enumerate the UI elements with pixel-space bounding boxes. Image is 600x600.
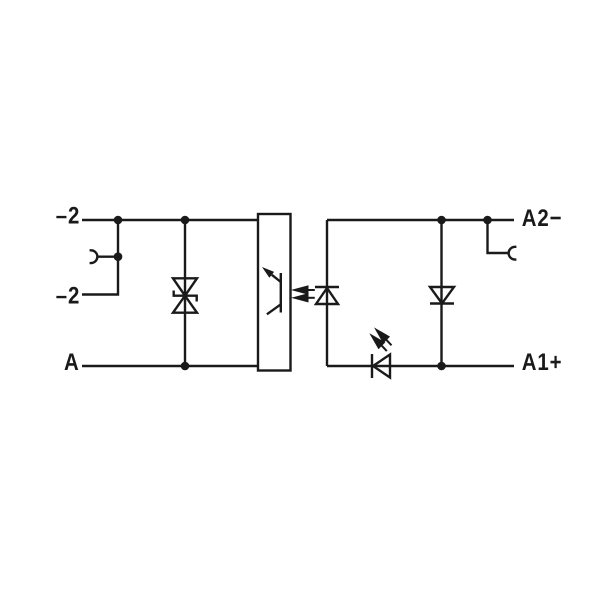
status LED light arrow upper	[377, 330, 392, 345]
junction dot socket left	[114, 252, 123, 261]
svg-text:A: A	[64, 349, 80, 376]
opto LED triangle	[316, 288, 338, 304]
svg-text:–2: –2	[56, 283, 80, 310]
optocoupler box U1	[258, 214, 291, 371]
opto LED light arrow upper	[295, 287, 315, 294]
junction dot socket right	[483, 216, 492, 225]
opto LED light arrow lower	[295, 294, 315, 301]
wire bottom-left rail (A)	[82, 365, 258, 367]
socket contact left	[90, 250, 98, 263]
phototransistor emitter line	[267, 304, 281, 314]
wire freewheel diode vertical	[440, 220, 442, 366]
junction dot diode top	[437, 216, 446, 225]
wire TVS vertical	[184, 220, 186, 366]
wire opto LED vertical	[326, 220, 328, 366]
svg-text:–2: –2	[56, 203, 80, 230]
TVS suppressor diode top triangle	[173, 278, 197, 295]
junction dot top-left	[114, 216, 123, 225]
freewheel diode D1 triangle	[430, 287, 454, 304]
svg-text:A1+: A1+	[522, 349, 563, 376]
status LED light arrow lower	[372, 336, 387, 351]
wire top-left rail	[82, 219, 258, 221]
svg-text:A2−: A2−	[522, 205, 563, 232]
status LED triangle	[373, 355, 390, 378]
wire left branch vertical	[82, 220, 118, 295]
junction dot TVS top	[181, 216, 190, 225]
freewheel diode D1 cathode bar	[430, 302, 454, 304]
junction dot TVS bottom	[181, 362, 190, 371]
opto LED cathode bar	[315, 286, 339, 288]
wire top-right rail	[327, 219, 514, 221]
socket contact right	[509, 247, 517, 260]
TVS suppressor diode bottom triangle	[173, 296, 197, 313]
TVS suppressor diode Z-bar	[174, 291, 197, 302]
wire socket stub left	[97, 256, 118, 258]
wire bottom-right rail	[327, 365, 514, 367]
wire right socket branch	[488, 220, 509, 253]
phototransistor collector arrowhead	[262, 267, 274, 278]
phototransistor base bar	[280, 273, 282, 313]
status LED cathode bar	[371, 354, 373, 378]
junction dot diode bottom	[437, 362, 446, 371]
phototransistor collector line	[272, 275, 281, 282]
